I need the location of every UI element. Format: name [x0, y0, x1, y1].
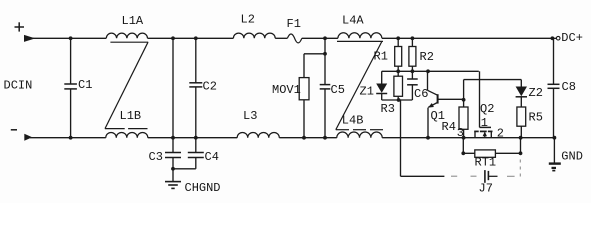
resistor R4 [463, 99, 465, 107]
svg-text:J7: J7 [479, 181, 493, 195]
transistor Q2 body arrow [484, 133, 486, 138]
wire dashed J7 to RT1 right [507, 175, 515, 177]
svg-text:C8: C8 [562, 80, 576, 94]
wire bottom rail: L4B to GND node [382, 137, 554, 139]
svg-text:L4A: L4A [342, 14, 364, 28]
svg-text:R1: R1 [374, 50, 388, 64]
junction dot MOV1 bottom [302, 136, 306, 140]
inductor L4A [338, 33, 382, 39]
junction dot MOV1-C5 stem on top rail [323, 36, 327, 40]
svg-text:C2: C2 [203, 79, 217, 93]
wire top rail: + terminal to L1A [30, 37, 106, 39]
junction dot RT1 right [519, 151, 523, 155]
svg-text:C1: C1 [78, 78, 92, 92]
svg-text:R5: R5 [529, 111, 543, 125]
wire top rail: L2 to F1 [275, 37, 287, 39]
capacitor C3 [172, 138, 174, 153]
resistor R3 [397, 71, 399, 76]
junction dot R5 bottom [519, 136, 523, 140]
svg-text:L1B: L1B [120, 109, 142, 123]
junction dot RT1 left [461, 151, 465, 155]
inductor L1B [106, 132, 148, 137]
wire RT1 line [463, 152, 520, 154]
core line L1B [105, 128, 125, 130]
svg-text:1: 1 [481, 116, 488, 130]
svg-text:GND: GND [561, 150, 583, 164]
zener diode Z1 [381, 71, 383, 83]
connector J7 [484, 170, 486, 183]
wire node-B under R3 [382, 99, 413, 101]
junction dot bottom of vertical wire [171, 136, 175, 140]
resistor R5 [517, 107, 526, 126]
inductor L2 [233, 33, 275, 38]
coupling diagonal L4A-L4B [336, 41, 382, 129]
wire node-A down to Q2 gate [479, 71, 481, 127]
svg-text:L2: L2 [241, 13, 255, 27]
transistor Q1 [427, 71, 429, 90]
svg-text:CHGND: CHGND [185, 181, 221, 195]
wire node-C rail [464, 79, 522, 81]
junction dot R4 bottom [462, 136, 466, 140]
ground GND symbol [549, 162, 561, 164]
junction dot C2 top [194, 36, 198, 40]
wire bottom rail: - terminal to L1B [30, 137, 106, 139]
wire dashed to J7 left pin [451, 175, 457, 177]
junction dot C1 top [69, 36, 73, 40]
core line L4B [336, 129, 349, 131]
wire node-A rail [382, 70, 479, 72]
svg-text:C6: C6 [414, 87, 428, 101]
junction dot R1 top [396, 36, 400, 40]
wire C3-C4 join [173, 168, 196, 170]
wire R5 node down to RT1 [520, 138, 522, 154]
wire rail stub to DC+ circle [552, 37, 556, 39]
junction dot C5 bottom [323, 136, 327, 140]
capacitor C2 [195, 38, 197, 83]
wire bottom rail to GND [553, 138, 555, 163]
wire bottom rail: L1B to L3 [148, 137, 237, 139]
wire MOV1-C5 stem [324, 38, 326, 54]
junction dot R2 top [411, 36, 415, 40]
svg-text:L1A: L1A [122, 14, 144, 28]
junction dot C3-C4 join [171, 167, 175, 171]
capacitor C1 [70, 38, 72, 84]
svg-text:R2: R2 [420, 50, 434, 64]
wire MOV1 to bottom rail [303, 100, 305, 138]
wire vertical node between chokes [172, 38, 174, 137]
junction dot R1 bottom on node-A [396, 69, 400, 73]
junction dot C8 bottom rail end [553, 136, 557, 140]
svg-text:C4: C4 [205, 150, 219, 164]
node DC input negative terminal (-) [11, 129, 17, 131]
capacitor C6 [411, 71, 413, 79]
inductor L4B [337, 132, 382, 138]
core line L1A [110, 41, 148, 43]
svg-text:C3: C3 [149, 150, 163, 164]
inductor L3 [237, 132, 279, 137]
junction dot Q1 emitter on bottom rail [426, 136, 430, 140]
wire top rail: L4A to DC+ terminal [382, 37, 553, 39]
wire top rail: L1A to L2 [148, 37, 234, 39]
svg-text:Z2: Z2 [529, 86, 543, 100]
transistor Q2 source stub [474, 131, 476, 137]
zener diode Z2 [520, 80, 522, 87]
svg-text:L3: L3 [243, 109, 257, 123]
coupling diagonal L1A-L1B [105, 42, 148, 128]
svg-text:C5: C5 [331, 83, 345, 97]
inductor L1A [106, 33, 147, 38]
ground CHGND chassis ground symbol [165, 181, 181, 183]
thermistor RT1 [475, 150, 496, 157]
svg-text:DCIN: DCIN [4, 79, 33, 93]
wire R4 node down to RT1 [462, 138, 464, 154]
junction dot MOV1 branch [323, 52, 327, 56]
svg-text:RT1: RT1 [475, 156, 497, 170]
capacitor C4 [195, 138, 197, 153]
wire MOV1 branch [304, 53, 325, 55]
svg-text:R4: R4 [442, 120, 456, 134]
capacitor C5 [324, 54, 326, 85]
junction dot Q1 base R4 top [462, 98, 466, 102]
terminal DC+ circle [556, 36, 560, 40]
junction dot C8 top on top rail [551, 36, 555, 40]
resistor R1 [397, 38, 399, 46]
core line L4A [337, 40, 383, 42]
wire bottom rail: L3 to L4B [279, 137, 337, 139]
wire to chassis ground [172, 169, 174, 181]
svg-text:F1: F1 [287, 17, 301, 31]
wire node-B down to J7 line [400, 100, 402, 176]
varistor MOV1 [299, 78, 309, 100]
transistor Q2 channel [474, 130, 479, 132]
junction dot Q1 collector branch on node-A [426, 69, 430, 73]
svg-text:MOV1: MOV1 [272, 83, 301, 97]
wire top rail: F1 to L4A [302, 37, 338, 39]
svg-text:Q2: Q2 [480, 102, 494, 116]
fuse F1 [287, 34, 301, 43]
junction dot top of vertical wire [171, 36, 175, 40]
transistor Q2 drain stub [490, 131, 492, 137]
svg-text:R3: R3 [381, 102, 395, 116]
svg-text:L4B: L4B [342, 113, 364, 127]
junction dot node-B [397, 98, 401, 102]
svg-text:2: 2 [497, 126, 504, 140]
svg-text:DC+: DC+ [561, 31, 583, 45]
svg-text:Z1: Z1 [360, 85, 374, 99]
capacitor C8 [553, 38, 555, 84]
junction dot C2 bottom [194, 136, 198, 140]
node DC input positive terminal (+) [15, 26, 25, 28]
junction dot R2 bottom on node-A [411, 69, 415, 73]
resistor R2 [411, 38, 413, 46]
junction dot C1 bottom [69, 136, 73, 140]
transistor Q2 gate bar [480, 126, 492, 128]
